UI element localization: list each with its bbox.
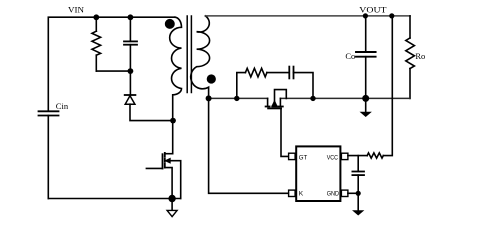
capacitor C3 (VCC bypass capacitor) — [352, 156, 364, 194]
transformer T1 primary winding — [170, 17, 182, 154]
node junction dot VIN rail at snubber resistor — [93, 14, 99, 20]
resistor R2 (snubber resistor) — [245, 68, 267, 77]
wire clamp bottom joining R1 and C1 — [96, 70, 130, 72]
pin K of U1 — [289, 190, 304, 197]
wire secondary ground rail (right of Q2) — [280, 97, 410, 99]
node junction dot VIN rail at clamp capacitor — [127, 14, 133, 20]
capacitor C1 (clamp capacitor) — [124, 17, 137, 71]
node junction dot clamp bottom — [127, 68, 133, 74]
node VIN label — [68, 5, 84, 15]
svg-text:Cin: Cin — [56, 101, 69, 111]
node junction dot VOUT rail at Co — [363, 13, 368, 18]
wire diode anode down and right to drain node — [130, 104, 173, 120]
capacitor C2 (snubber capacitor) — [289, 67, 293, 79]
pin GT of U1 — [289, 153, 308, 161]
svg-text:VCC: VCC — [327, 155, 338, 162]
transistor Q2 (SR MOSFET, horizontal) — [266, 90, 287, 109]
svg-text:K: K — [299, 190, 304, 197]
transformer T1 core — [187, 16, 191, 93]
node junction dot at Q1 drain / primary bottom — [170, 118, 176, 124]
ground symbol primary (open triangle) — [167, 199, 177, 217]
op-amp U1 (SR controller IC body) — [296, 146, 340, 201]
wire left input column (VIN rail to Cin) — [47, 17, 49, 111]
node junction dot secondary rail ground — [362, 95, 369, 102]
wire Cin bottom to bottom rail — [47, 116, 49, 199]
node junction dot secondary rail at snubber right — [310, 96, 315, 101]
capacitor Cin — [39, 101, 69, 116]
node junction dot secondary rail at transformer — [206, 95, 212, 101]
wire R2 to C2 — [267, 72, 289, 74]
wire snubber left leg — [237, 73, 246, 99]
node junction dot Q1 source / bottom rail — [168, 195, 175, 202]
wire bottom-left rail — [48, 198, 180, 200]
wire R3 to VOUT rail — [383, 16, 392, 156]
wire VCC pin to feed resistor — [348, 155, 367, 157]
svg-text:VIN: VIN — [68, 5, 84, 15]
transformer T1 primary phase dot — [165, 19, 175, 29]
wire clamp junction down to diode cathode — [129, 71, 131, 95]
pin VCC of U1 — [327, 153, 348, 161]
wire Q2 gate to GT pin — [281, 108, 289, 156]
ground symbol IC GND (filled) — [353, 193, 363, 215]
wire VOUT top rail — [205, 15, 410, 17]
ground symbol secondary rail (filled) — [361, 98, 371, 116]
svg-text:GND: GND — [327, 190, 340, 197]
capacitor Co (output capacitor) — [345, 16, 375, 99]
transformer T1 secondary phase dot — [207, 74, 216, 83]
wire GND pin to ground — [348, 192, 358, 194]
resistor Ro (load resistor) — [406, 16, 426, 99]
transformer T1 secondary winding — [191, 16, 210, 99]
node junction dot VOUT rail at VCC feed — [389, 13, 394, 18]
wire K pin to secondary rail — [209, 98, 289, 193]
transistor Q1 (primary MOSFET, vertical) — [146, 153, 180, 199]
svg-text:GT: GT — [299, 155, 308, 162]
svg-text:Ro: Ro — [415, 51, 425, 61]
svg-text:Co: Co — [345, 51, 355, 61]
svg-text:VOUT: VOUT — [359, 4, 387, 14]
node junction dot at GND pin net — [356, 191, 361, 196]
node junction dot secondary rail at snubber left — [234, 96, 239, 101]
pin GND of U1 — [327, 190, 348, 197]
resistor R1 (input clamp resistor) — [92, 17, 101, 71]
diode D1 (clamp diode, cathode up) — [125, 95, 136, 104]
wire VIN top rail — [48, 16, 175, 18]
node VOUT label — [359, 4, 387, 14]
wire snubber right leg — [294, 73, 314, 99]
resistor R3 (VCC feed resistor) — [367, 153, 383, 158]
wire secondary ground rail (left of Q2) — [209, 97, 268, 99]
